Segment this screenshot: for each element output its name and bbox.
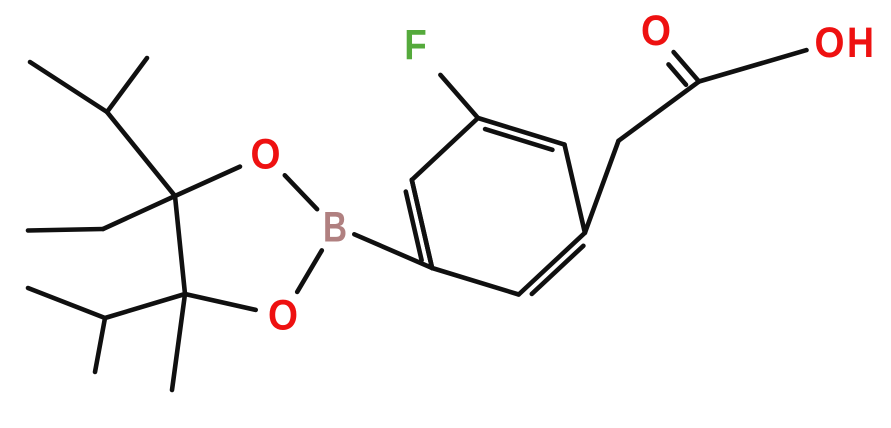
svg-text:H: H [847,20,874,67]
bond O2-B [297,250,322,292]
bond O1-C4 [175,167,240,196]
bond C4 to branch V4 [107,112,175,196]
bond ring-F [440,75,478,118]
bond ring-CH2 [585,141,619,233]
svg-text:O: O [268,293,298,340]
bond O1-B [285,175,317,209]
bond C4 to branch W4 [103,196,175,229]
ring bond c6-c4r [565,145,585,233]
bond C4-C5 [175,196,185,294]
svg-text:F: F [404,23,427,70]
ring bond c5r-cB [432,268,519,295]
ring bond cbtw-cF [412,118,478,180]
branch V4 methyl a [30,62,107,112]
svg-text:O: O [641,8,671,55]
branch V4 methyl c [107,58,147,112]
svg-text:B: B [323,205,347,252]
bond C8-OH hydroxyl [699,50,807,81]
branch W4 methyl [28,229,103,231]
bond C5 to branch V5 [105,294,185,318]
branch V5 methyl a [28,288,105,318]
ring double c4r-c5r [519,233,585,295]
bond C5 methyl down [172,294,185,390]
bond O2-C5 [185,294,256,310]
ring bond cB-cbtw [412,180,432,268]
ring double cB-cbtw [412,180,432,268]
double bond C8=O3 carbonyl [674,52,699,81]
svg-text:O: O [815,20,845,67]
branch V5 methyl b [95,318,105,372]
ring double cF-c6 [478,118,565,145]
bond CH2-C8 [619,82,700,141]
bond B-ring ipso [354,234,432,268]
svg-text:O: O [251,132,281,179]
